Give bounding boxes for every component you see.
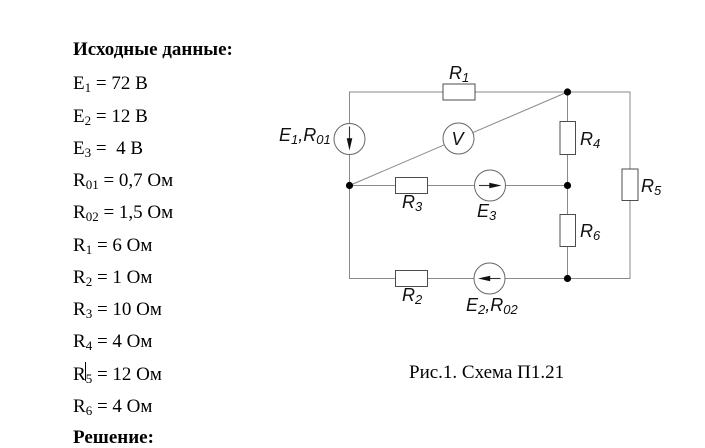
svg-text:R2: R2 — [402, 285, 423, 307]
svg-text:R1: R1 — [449, 63, 469, 85]
svg-text:R5: R5 — [641, 176, 662, 198]
svg-text:E2,R02: E2,R02 — [466, 295, 518, 317]
svg-text:R3: R3 — [402, 192, 423, 214]
svg-text:E3: E3 — [477, 201, 497, 223]
svg-text:R4: R4 — [580, 129, 600, 151]
svg-text:V: V — [452, 129, 466, 149]
svg-text:R6: R6 — [580, 221, 601, 243]
svg-text:E1,R01: E1,R01 — [279, 125, 331, 147]
